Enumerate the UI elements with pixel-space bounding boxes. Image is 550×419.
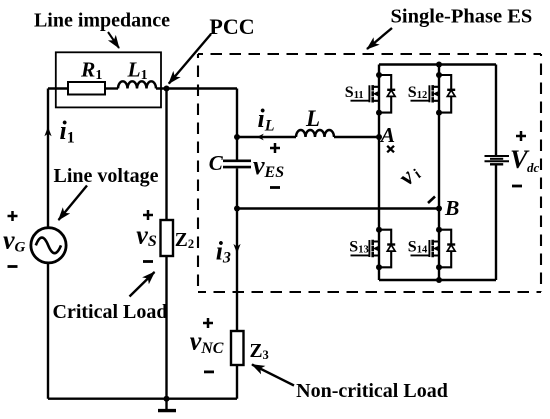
wire: bridge top rail: [379, 63, 496, 65]
battery Vdc: [485, 155, 510, 157]
node cap-bottom junction dot: [234, 206, 240, 212]
node bottom rail junction dot: [436, 277, 442, 283]
svg-text:Line impedance: Line impedance: [34, 9, 170, 31]
label vNC minus: [204, 370, 214, 373]
wire: capacitor branch vertical from top wire to cap: [236, 89, 238, 160]
svg-text:Critical Load: Critical Load: [53, 301, 168, 323]
inductor L1: [118, 81, 156, 88]
transistor S13: [351, 227, 396, 271]
wire: cap to B-wire node and down to Z3: [236, 168, 238, 331]
label Vdc plus: [516, 131, 526, 141]
svg-text:Non-critical Load: Non-critical Load: [296, 380, 448, 402]
wire: bridge left leg: [378, 65, 380, 281]
marker x below A: [387, 146, 394, 153]
svg-text:L: L: [305, 106, 320, 131]
wire: PCC vertical down to Z2: [165, 89, 167, 221]
wire: L1 to PCC node and onward to capacitor branch: [156, 87, 237, 89]
svg-text:A: A: [379, 123, 395, 147]
arrow for PCC: [169, 34, 211, 84]
inductor L: [296, 130, 334, 137]
node top rail junction dot: [436, 62, 442, 68]
dashed box Single-Phase ES: [198, 53, 541, 55]
AC source sine wave: [36, 238, 61, 254]
arrow for Line voltage: [59, 186, 88, 221]
box around line impedance: [56, 52, 161, 107]
load Z2 critical load: [161, 220, 174, 256]
label vES plus: [270, 143, 280, 153]
wire: Z3 to bottom rail: [236, 365, 238, 399]
wire: battery branch bottom: [495, 164, 497, 280]
node A junction dot: [376, 134, 382, 140]
wire: top line to R1: [48, 87, 68, 89]
wire: B horizontal from cap branch to node B: [237, 207, 439, 209]
wire: iL horizontal from cap branch to inductor L: [237, 136, 296, 138]
label vS plus: [143, 210, 153, 220]
node iL junction dot: [234, 134, 240, 140]
arrow for Critical Load: [130, 272, 155, 297]
current arrow iL pointing left: [257, 134, 264, 141]
label vNC plus: [203, 318, 213, 328]
transistor S12: [411, 72, 456, 116]
marker slash near B: [428, 197, 435, 204]
current arrow i1 on left wire: [44, 127, 51, 137]
svg-text:Line voltage: Line voltage: [54, 165, 159, 187]
wire: Z2 to bottom rail: [165, 256, 167, 399]
svg-text:B: B: [444, 196, 459, 220]
wire: AC source branch left vertical top: [47, 89, 49, 228]
wire: battery branch top: [495, 65, 497, 157]
wire: bridge bottom rail: [379, 279, 496, 281]
transistor S14: [411, 227, 456, 271]
load Z3 non-critical load: [231, 331, 244, 365]
label vES minus: [270, 186, 280, 189]
transistor S11: [351, 72, 396, 116]
label vG plus: [8, 211, 18, 221]
ground: [165, 399, 167, 410]
AC source vG circle: [31, 228, 66, 263]
capacitor C plates: [223, 160, 251, 163]
wire: AC source branch left vertical bottom: [47, 263, 49, 399]
wire: R1 to L1: [105, 87, 118, 89]
current arrow i3: [233, 244, 240, 254]
node PCC junction dot: [164, 86, 170, 92]
resistor R1: [68, 82, 105, 95]
ground node junction dot: [164, 396, 170, 402]
arrow for Single-Phase ES: [367, 28, 392, 49]
node B junction dot: [436, 206, 442, 212]
label vG minus: [8, 265, 18, 268]
label Vdc minus: [512, 185, 522, 188]
wire: bottom rail: [48, 398, 237, 400]
arrow for Non-critical Load: [252, 365, 294, 386]
svg-text:Single-Phase ES: Single-Phase ES: [391, 5, 533, 27]
wire: bridge right leg: [438, 65, 440, 281]
svg-text:C: C: [209, 151, 224, 175]
label vS minus: [143, 260, 153, 263]
svg-text:dc: dc: [527, 160, 540, 175]
arrow for Line impedance: [108, 32, 119, 48]
svg-text:PCC: PCC: [209, 14, 254, 39]
wire: L to node A: [334, 136, 379, 138]
